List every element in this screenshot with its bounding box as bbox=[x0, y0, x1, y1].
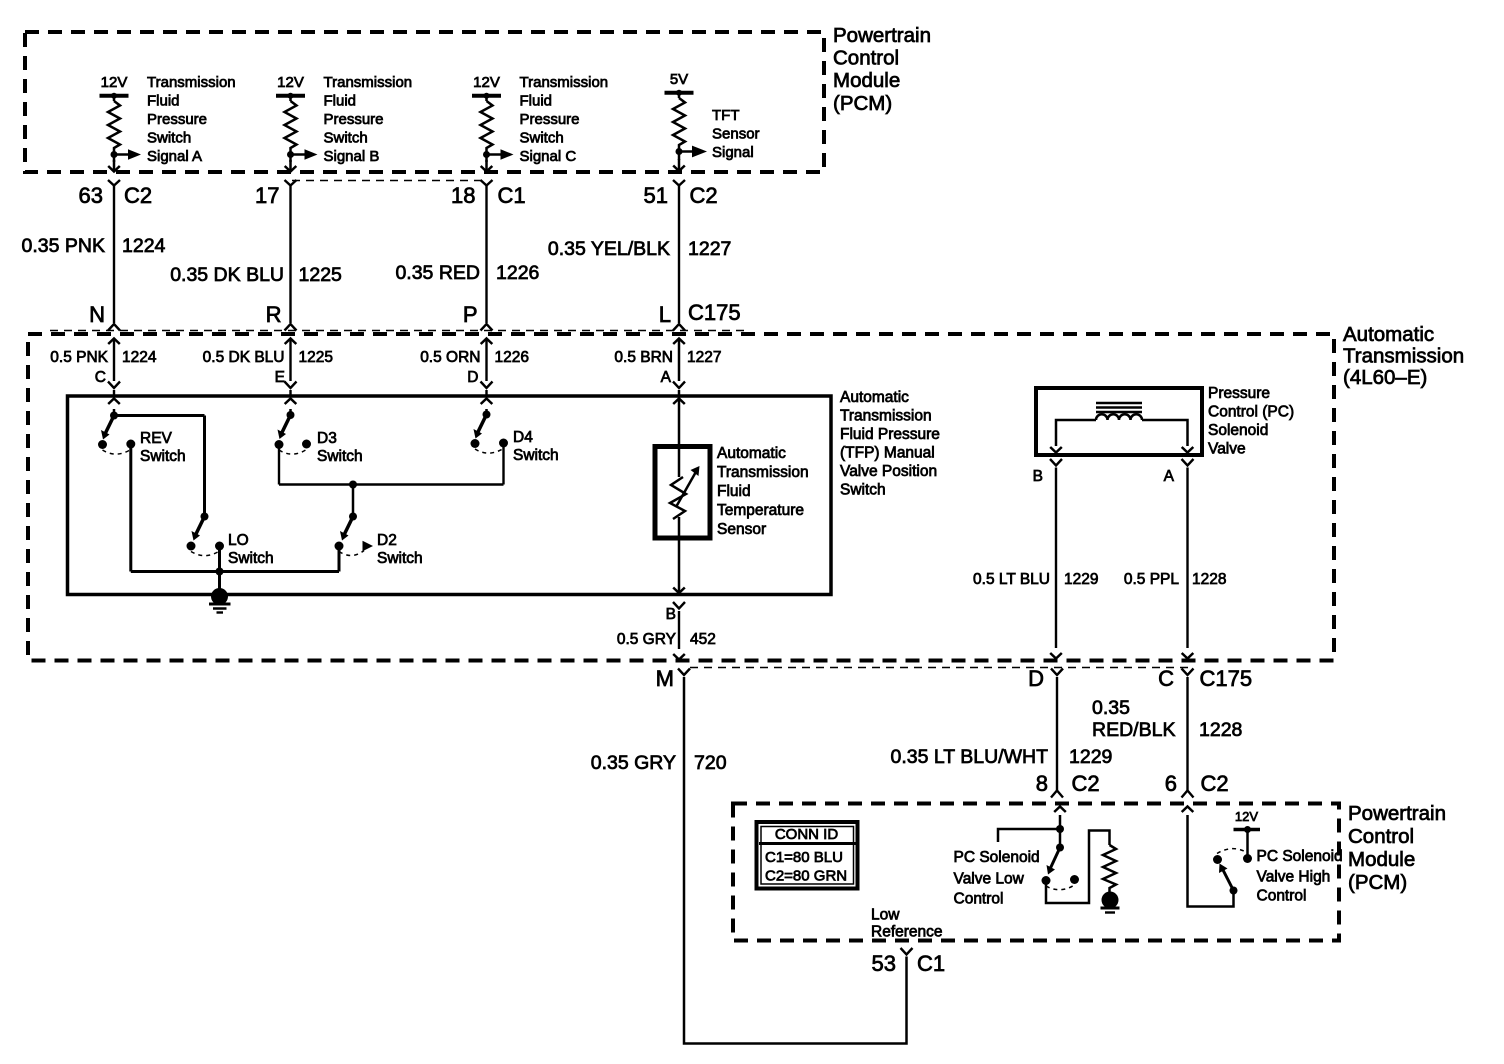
connector M (C175) bbox=[656, 666, 690, 691]
wire PCM pin 8 entry bbox=[1054, 807, 1066, 848]
svg-text:D: D bbox=[1028, 666, 1044, 691]
svg-text:Transmission: Transmission bbox=[147, 74, 236, 91]
svg-text:Switch: Switch bbox=[520, 130, 564, 147]
svg-text:720: 720 bbox=[694, 752, 727, 774]
svg-text:12V: 12V bbox=[473, 74, 500, 91]
svg-text:D3: D3 bbox=[317, 430, 337, 447]
svg-text:Powertrain: Powertrain bbox=[833, 24, 931, 47]
svg-text:LO: LO bbox=[228, 532, 249, 549]
svg-text:63: 63 bbox=[79, 183, 103, 208]
12V supply (high control) bbox=[1234, 809, 1261, 863]
svg-text:1224: 1224 bbox=[122, 235, 166, 257]
svg-text:Transmission: Transmission bbox=[717, 464, 809, 481]
svg-text:8: 8 bbox=[1036, 771, 1048, 796]
svg-text:Transmission: Transmission bbox=[324, 74, 413, 91]
svg-text:1226: 1226 bbox=[495, 349, 529, 366]
label D3 Switch bbox=[317, 430, 363, 465]
label 0.35 PNK 1224 bbox=[22, 235, 166, 257]
svg-text:18: 18 bbox=[451, 183, 475, 208]
wire D pin entry 1226 bbox=[481, 339, 493, 397]
connector dashed link C175 bottom row bbox=[690, 667, 1190, 669]
connector 17 (PCM) bbox=[255, 180, 296, 208]
wire, branch C down to connector bbox=[481, 151, 493, 172]
svg-text:0.35 DK BLU: 0.35 DK BLU bbox=[170, 264, 284, 286]
svg-text:(PCM): (PCM) bbox=[833, 92, 892, 115]
svg-text:Transmission: Transmission bbox=[520, 74, 609, 91]
svg-text:A: A bbox=[661, 369, 672, 386]
svg-text:(TFP) Manual: (TFP) Manual bbox=[840, 445, 935, 462]
svg-text:Fluid: Fluid bbox=[324, 93, 357, 110]
svg-text:0.5 BRN: 0.5 BRN bbox=[614, 349, 673, 366]
svg-text:Valve: Valve bbox=[1208, 441, 1246, 458]
svg-text:Control: Control bbox=[954, 891, 1004, 908]
connector A (PC solenoid) bbox=[1164, 459, 1194, 485]
switch D4 bbox=[471, 411, 509, 454]
svg-text:N: N bbox=[89, 302, 105, 327]
wire LO right contact to ground bbox=[218, 546, 221, 597]
svg-text:Module: Module bbox=[833, 69, 900, 92]
svg-text:E: E bbox=[275, 369, 285, 386]
svg-text:Signal A: Signal A bbox=[147, 148, 202, 165]
switch PC solenoid valve high control driver bbox=[1213, 849, 1248, 895]
CONN ID table bbox=[757, 822, 858, 889]
label PC Solenoid Valve Low Control bbox=[954, 849, 1040, 908]
svg-text:Switch: Switch bbox=[377, 550, 423, 567]
svg-text:Pressure: Pressure bbox=[147, 111, 207, 128]
svg-text:Fluid: Fluid bbox=[147, 93, 180, 110]
node, signal B junction bbox=[287, 151, 294, 158]
svg-text:Pressure: Pressure bbox=[1208, 385, 1270, 402]
label PCM (top) bbox=[833, 24, 931, 115]
label D2 Switch bbox=[377, 532, 423, 567]
svg-text:0.35 RED: 0.35 RED bbox=[395, 262, 480, 284]
wire REV junction to LO switch bbox=[114, 416, 205, 517]
svg-text:Powertrain: Powertrain bbox=[1348, 802, 1446, 825]
svg-text:C: C bbox=[1158, 666, 1174, 691]
connector dashed link C1 row bbox=[292, 180, 485, 182]
svg-text:Transmission: Transmission bbox=[1343, 345, 1464, 368]
label Transmission Fluid Pressure Switch Signal A bbox=[147, 74, 236, 165]
svg-text:1228: 1228 bbox=[1192, 571, 1226, 588]
node low control junction bbox=[1056, 825, 1064, 833]
svg-text:Fluid Pressure: Fluid Pressure bbox=[840, 426, 940, 443]
svg-text:Control: Control bbox=[1348, 825, 1414, 848]
wire C pin entry 1224 bbox=[108, 339, 120, 397]
label LO Switch bbox=[228, 532, 274, 567]
svg-text:PC Solenoid: PC Solenoid bbox=[1257, 848, 1343, 865]
svg-text:Control: Control bbox=[1257, 888, 1307, 905]
node N (C175) bbox=[89, 302, 105, 327]
label 0.35 DK BLU 1225 bbox=[170, 264, 342, 286]
svg-text:C2: C2 bbox=[124, 183, 152, 208]
pin 6 C2 (PCM) bbox=[1165, 771, 1229, 796]
12V supply, branch C bbox=[472, 74, 501, 101]
wire TFT sensor exit arrow bbox=[673, 588, 685, 594]
label 0.5 PNK 1224 bbox=[50, 349, 157, 366]
component box ATF temperature sensor bbox=[655, 447, 710, 539]
svg-text:D4: D4 bbox=[513, 429, 533, 446]
svg-text:(4L60–E): (4L60–E) bbox=[1343, 366, 1427, 389]
svg-text:REV: REV bbox=[140, 430, 173, 447]
svg-text:C2: C2 bbox=[1201, 771, 1229, 796]
label Transmission Fluid Pressure Switch Signal C bbox=[520, 74, 609, 165]
svg-text:Switch: Switch bbox=[147, 130, 191, 147]
svg-text:D2: D2 bbox=[377, 532, 397, 549]
wire 1229 LT BLU (solenoid B to C175) bbox=[1050, 468, 1062, 659]
wire D2 left contact down bbox=[338, 546, 341, 572]
svg-text:B: B bbox=[666, 606, 676, 623]
svg-text:0.5 PPL: 0.5 PPL bbox=[1124, 571, 1180, 588]
wire 452 GRY (sensor to C175) bbox=[673, 611, 685, 660]
5V supply, TFT branch bbox=[665, 71, 694, 98]
svg-text:Low: Low bbox=[871, 907, 900, 924]
connector B (PC solenoid) bbox=[1033, 459, 1062, 485]
svg-text:Pressure: Pressure bbox=[324, 111, 384, 128]
svg-text:12V: 12V bbox=[277, 74, 304, 91]
svg-text:5V: 5V bbox=[670, 71, 688, 88]
wire mid bus D3-D4 bbox=[279, 481, 504, 517]
connector 63 C2 (PCM) bbox=[79, 180, 153, 208]
svg-text:Valve Low: Valve Low bbox=[954, 871, 1025, 888]
svg-text:Switch: Switch bbox=[317, 448, 363, 465]
svg-text:Pressure: Pressure bbox=[520, 111, 580, 128]
resistor, TFP switch signal B pull-up bbox=[285, 101, 297, 151]
svg-text:51: 51 bbox=[644, 183, 668, 208]
svg-text:0.35 GRY: 0.35 GRY bbox=[591, 752, 676, 774]
wire, branch B down to connector bbox=[285, 151, 297, 172]
wire 720 GRY (C175 M to PCM low ref) bbox=[684, 677, 907, 1044]
label Automatic Transmission Fluid Temperature Sensor bbox=[717, 445, 809, 538]
ground (low control resistor) bbox=[1101, 892, 1120, 913]
pin C (TFP switch) bbox=[95, 369, 106, 386]
solenoid core lines bbox=[1096, 403, 1142, 412]
svg-text:Control (PC): Control (PC) bbox=[1208, 404, 1294, 421]
resistor, TFP switch signal C pull-up bbox=[481, 101, 493, 151]
signal A tap arrow bbox=[114, 149, 141, 159]
svg-text:C1=80 BLU: C1=80 BLU bbox=[765, 849, 843, 866]
thermistor symbol ATF sensor bbox=[670, 396, 700, 595]
label 0.5 BRN 1227 bbox=[614, 349, 721, 366]
svg-text:0.5 LT BLU: 0.5 LT BLU bbox=[973, 571, 1050, 588]
wire 1224 PNK (PCM to C175) bbox=[108, 185, 120, 331]
svg-text:Module: Module bbox=[1348, 848, 1415, 871]
connector C (C175) bbox=[1158, 666, 1252, 691]
label 0.35 YEL/BLK 1227 bbox=[548, 238, 732, 260]
connector 51 C2 (PCM) bbox=[644, 180, 718, 208]
wire coil to pin A bbox=[1142, 420, 1193, 453]
svg-text:Switch: Switch bbox=[140, 448, 186, 465]
wire D4 entry arrow bbox=[481, 399, 493, 415]
svg-text:12V: 12V bbox=[101, 74, 128, 91]
wire D3 entry arrow bbox=[285, 399, 297, 416]
svg-text:C2=80 GRN: C2=80 GRN bbox=[765, 868, 847, 885]
svg-text:Switch: Switch bbox=[228, 550, 274, 567]
svg-text:B: B bbox=[1033, 468, 1043, 485]
svg-text:1228: 1228 bbox=[1199, 719, 1242, 741]
wire coil to pin B bbox=[1050, 420, 1096, 453]
label D4 Switch bbox=[513, 429, 559, 464]
wire 1229 LT BLU/WHT (C175 D to PCM pin 8) bbox=[1051, 677, 1063, 798]
svg-text:C175: C175 bbox=[688, 300, 741, 325]
switch D3 bbox=[275, 411, 312, 454]
module box PCM (top) bbox=[25, 32, 824, 172]
svg-text:0.35 LT BLU/WHT: 0.35 LT BLU/WHT bbox=[891, 746, 1049, 768]
module box PCM (bottom) bbox=[733, 804, 1339, 941]
signal B tap arrow bbox=[291, 149, 318, 159]
svg-text:Control: Control bbox=[833, 47, 899, 70]
svg-text:C1: C1 bbox=[917, 951, 945, 976]
svg-text:Switch: Switch bbox=[840, 482, 886, 499]
wire 1226 RED (PCM to C175) bbox=[481, 185, 493, 331]
svg-text:0.35 PNK: 0.35 PNK bbox=[22, 235, 105, 257]
12V supply, branch A bbox=[100, 74, 129, 101]
switch LO bbox=[187, 513, 225, 556]
component box PC solenoid valve bbox=[1036, 388, 1202, 455]
component box TFP manual valve position switch bbox=[68, 396, 832, 595]
svg-text:1227: 1227 bbox=[688, 238, 731, 260]
wire, branch A down to connector bbox=[108, 151, 120, 172]
svg-text:Temperature: Temperature bbox=[717, 502, 804, 519]
label Transmission Fluid Pressure Switch Signal B bbox=[324, 74, 413, 165]
svg-text:Sensor: Sensor bbox=[717, 521, 766, 538]
svg-text:PC Solenoid: PC Solenoid bbox=[954, 849, 1040, 866]
wire REV right contact down bbox=[129, 444, 132, 572]
wire A pin entry 1227 bbox=[673, 339, 685, 397]
wire D4 right contact down bbox=[502, 443, 504, 485]
pin A (TFT sensor) bbox=[661, 369, 672, 386]
svg-text:D: D bbox=[467, 369, 478, 386]
svg-text:Signal: Signal bbox=[712, 144, 754, 161]
label 0.35 RED 1226 bbox=[395, 262, 539, 284]
svg-text:1229: 1229 bbox=[1064, 571, 1098, 588]
label Pressure Control (PC) Solenoid Valve bbox=[1208, 385, 1294, 458]
label 0.35 GRY 720 bbox=[591, 752, 727, 774]
node, signal A junction bbox=[111, 151, 118, 158]
label 0.5 LT BLU 1229 bbox=[973, 571, 1098, 588]
resistor, TFT sensor pull-up bbox=[673, 98, 685, 148]
svg-text:1229: 1229 bbox=[1069, 746, 1112, 768]
label REV Switch bbox=[140, 430, 186, 465]
svg-text:1226: 1226 bbox=[496, 262, 539, 284]
pin E (TFP switch) bbox=[275, 369, 285, 386]
svg-text:Valve Position: Valve Position bbox=[840, 463, 937, 480]
label PC Solenoid Valve High Control bbox=[1257, 848, 1343, 905]
svg-text:0.5 ORN: 0.5 ORN bbox=[420, 349, 480, 366]
label 0.5 PPL 1228 bbox=[1124, 571, 1227, 588]
svg-text:Solenoid: Solenoid bbox=[1208, 422, 1268, 439]
label PCM (bottom) bbox=[1348, 802, 1446, 894]
svg-text:Valve High: Valve High bbox=[1257, 869, 1331, 886]
pin D (TFP switch) bbox=[467, 369, 478, 386]
svg-text:Switch: Switch bbox=[324, 130, 368, 147]
label Automatic Transmission Fluid Pressure (TFP) Manual Valve Position Switch bbox=[840, 389, 940, 499]
svg-text:Transmission: Transmission bbox=[840, 408, 932, 425]
svg-text:M: M bbox=[656, 666, 674, 691]
switch PC solenoid valve low control driver bbox=[1042, 844, 1080, 890]
svg-text:Switch: Switch bbox=[513, 447, 559, 464]
svg-text:Signal B: Signal B bbox=[324, 148, 380, 165]
svg-text:TFT: TFT bbox=[712, 107, 740, 124]
svg-text:1224: 1224 bbox=[122, 349, 157, 366]
pin 8 C2 (PCM) bbox=[1036, 771, 1100, 796]
svg-text:L: L bbox=[659, 302, 671, 327]
connector B (TFT sensor) bbox=[666, 602, 685, 623]
svg-text:0.5 GRY: 0.5 GRY bbox=[617, 631, 676, 648]
switch REV bbox=[98, 412, 135, 455]
label Low Reference bbox=[871, 907, 943, 941]
svg-text:C175: C175 bbox=[1200, 666, 1253, 691]
svg-text:Automatic: Automatic bbox=[1343, 323, 1434, 346]
svg-text:0.35: 0.35 bbox=[1092, 697, 1130, 719]
svg-text:C1: C1 bbox=[498, 183, 526, 208]
wire bottom bus REV-D2 bbox=[131, 568, 339, 576]
svg-text:0.5 DK BLU: 0.5 DK BLU bbox=[203, 349, 285, 366]
label 0.35 LT BLU/WHT 1229 bbox=[891, 746, 1113, 768]
svg-text:0.5 PNK: 0.5 PNK bbox=[50, 349, 108, 366]
svg-text:Automatic: Automatic bbox=[717, 445, 786, 462]
TFT signal tap arrow bbox=[679, 146, 707, 158]
svg-text:Signal C: Signal C bbox=[520, 148, 577, 165]
module box Automatic Transmission (4L60-E) bbox=[28, 334, 1334, 661]
svg-text:1227: 1227 bbox=[687, 349, 721, 366]
svg-text:0.35 YEL/BLK: 0.35 YEL/BLK bbox=[548, 238, 670, 260]
wire 1225 DK BLU (PCM to C175) bbox=[285, 185, 297, 331]
inductor coil PC solenoid bbox=[1096, 414, 1142, 420]
wire 1228 RED/BLK (C175 C to PCM pin 6) bbox=[1182, 677, 1194, 798]
resistor, TFP switch signal A pull-up bbox=[108, 101, 120, 151]
wire low control stub bbox=[998, 829, 1060, 842]
signal C tap arrow bbox=[487, 149, 514, 159]
wire D3 left contact down bbox=[278, 445, 280, 485]
svg-text:Fluid: Fluid bbox=[520, 93, 553, 110]
resistor low control pull bbox=[1103, 845, 1116, 893]
svg-text:CONN ID: CONN ID bbox=[775, 826, 839, 843]
svg-text:P: P bbox=[463, 302, 478, 327]
svg-text:12V: 12V bbox=[1235, 809, 1258, 824]
svg-text:C2: C2 bbox=[690, 183, 718, 208]
label 0.5 GRY 452 bbox=[617, 631, 716, 648]
svg-text:Automatic: Automatic bbox=[840, 389, 909, 406]
wire low contact to resistor bbox=[1046, 831, 1110, 904]
ground (TFP switch common) bbox=[209, 588, 231, 613]
node P (C175) bbox=[463, 302, 478, 327]
svg-text:Reference: Reference bbox=[871, 924, 943, 941]
svg-text:A: A bbox=[1164, 468, 1175, 485]
svg-text:6: 6 bbox=[1165, 771, 1177, 796]
svg-text:(PCM): (PCM) bbox=[1348, 871, 1407, 894]
svg-text:R: R bbox=[266, 302, 282, 327]
svg-text:C2: C2 bbox=[1072, 771, 1100, 796]
label TFT Sensor Signal bbox=[712, 107, 760, 161]
node, signal C junction bbox=[483, 151, 490, 158]
label 0.5 DK BLU 1225 bbox=[203, 349, 333, 366]
label 0.5 ORN 1226 bbox=[420, 349, 529, 366]
svg-text:53: 53 bbox=[872, 951, 896, 976]
svg-text:Fluid: Fluid bbox=[717, 483, 751, 500]
connector D (C175) bbox=[1028, 666, 1063, 691]
svg-text:1225: 1225 bbox=[299, 349, 333, 366]
svg-text:RED/BLK: RED/BLK bbox=[1092, 719, 1175, 741]
wire PCM pin 6 entry bbox=[1182, 807, 1234, 907]
wire REV entry arrow bbox=[108, 399, 120, 416]
connector 53 C1 (PCM low reference) bbox=[872, 948, 946, 976]
wire 1228 PPL (solenoid A to C175) bbox=[1182, 468, 1194, 659]
node, TFT signal junction bbox=[676, 148, 683, 155]
connector 18 C1 (PCM) bbox=[451, 180, 526, 208]
label 0.35 RED/BLK 1228 bbox=[1092, 697, 1242, 741]
node L (C175) bbox=[659, 300, 741, 327]
node R (C175) bbox=[266, 302, 282, 327]
svg-text:Sensor: Sensor bbox=[712, 126, 760, 143]
wire E pin entry 1225 bbox=[285, 339, 297, 397]
svg-text:C: C bbox=[95, 369, 106, 386]
connector dashed link C175 top row bbox=[50, 330, 745, 332]
switch D2 bbox=[335, 513, 374, 556]
svg-text:452: 452 bbox=[690, 631, 716, 648]
label Automatic Transmission (4L60-E) bbox=[1343, 323, 1464, 389]
wire 1227 YEL/BLK (PCM to C175) bbox=[673, 185, 685, 331]
12V supply, branch B bbox=[276, 74, 305, 101]
wire, TFT branch down to connector bbox=[673, 148, 685, 171]
svg-text:17: 17 bbox=[255, 183, 279, 208]
svg-text:1225: 1225 bbox=[299, 264, 343, 286]
